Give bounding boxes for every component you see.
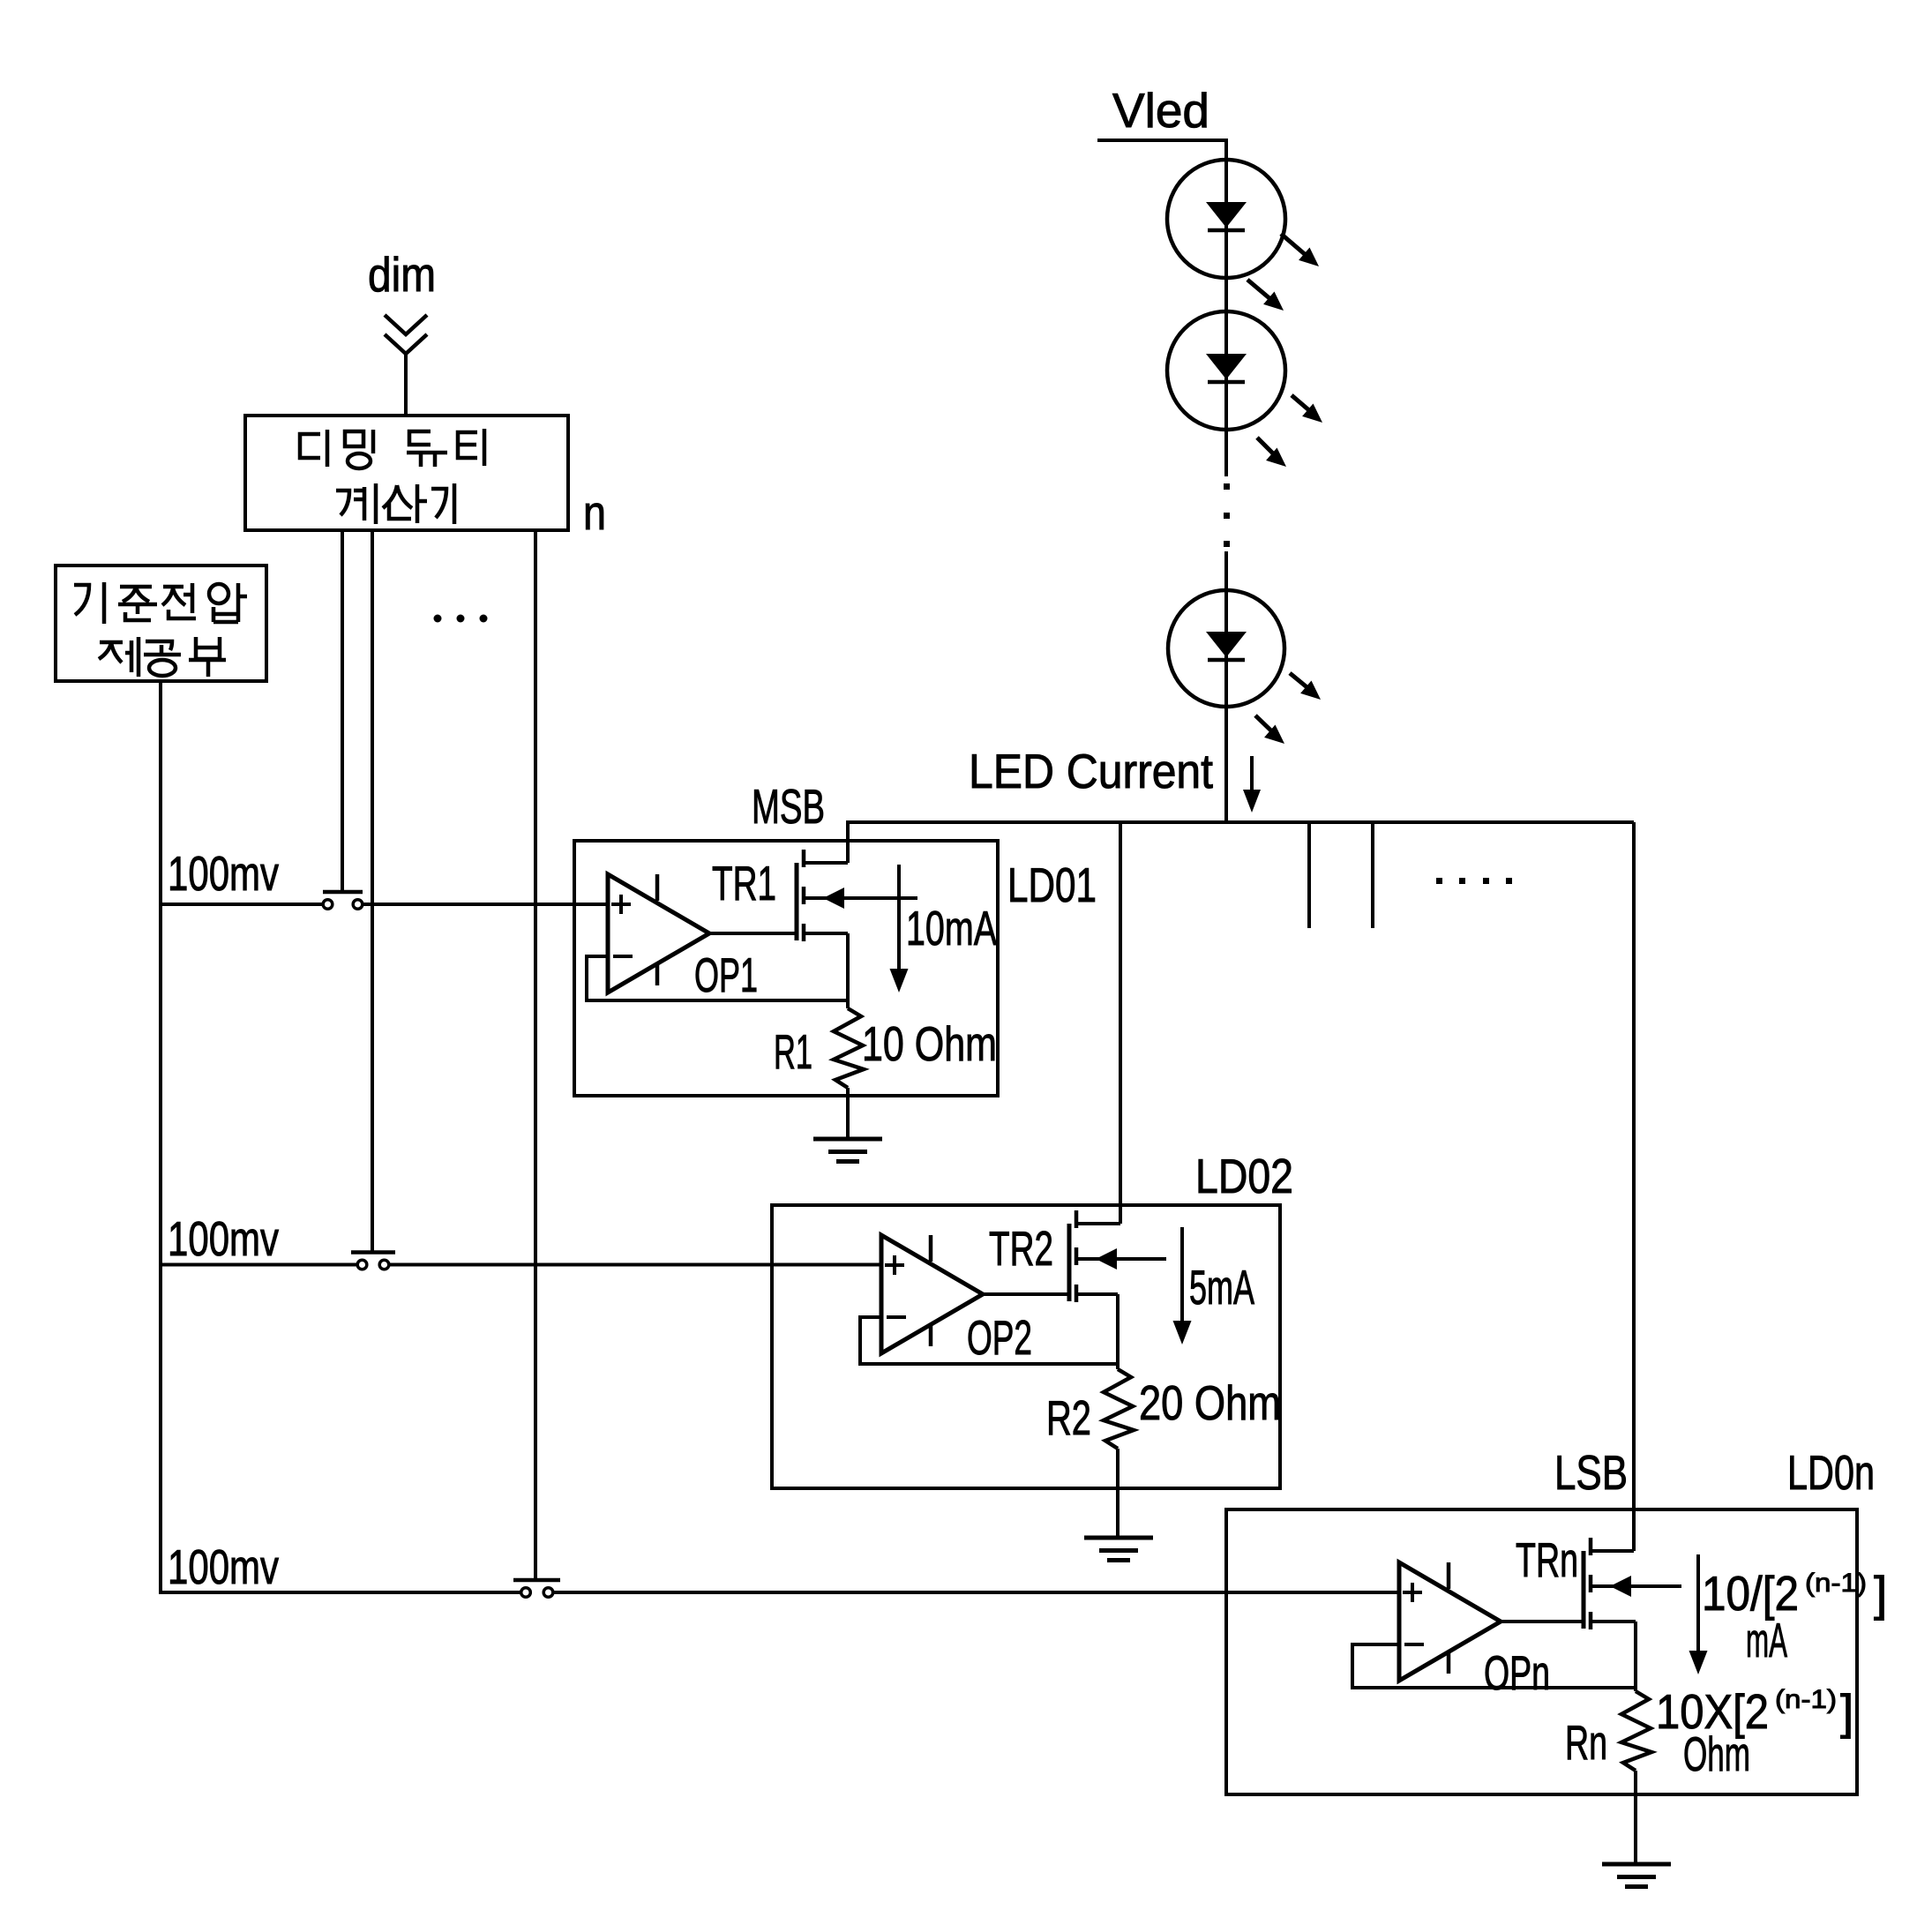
transistor TR2 [1067,1224,1072,1301]
wire TR1 source to R1 [846,933,850,1008]
wire 100mv rail 3 left [161,1591,520,1594]
svg-text:mA: mA [1746,1613,1787,1667]
resistor Rn [1621,1691,1651,1771]
svg-text:LSB: LSB [1554,1445,1628,1500]
wire OP2 feedback [860,1317,1118,1364]
LED D3 emission arrows [1290,673,1314,693]
switch SW1 [323,890,363,895]
wire Vled [1097,140,1226,160]
svg-text:(n-1): (n-1) [1775,1685,1837,1714]
current annotation 10mA arrow [897,865,901,971]
wire 100mv rail 2 right to OP2 [390,1263,881,1267]
LED string ellipsis dots [1224,483,1230,490]
resistor R2 [1104,1369,1134,1449]
wire bus to TRn drain [1632,822,1636,1551]
text reference-voltage line1 (Korean) [74,585,89,615]
svg-text:OP2: OP2 [967,1310,1032,1365]
wire OP2 output to TR2 gate [983,1292,1069,1296]
ground GND1 [813,1137,882,1142]
svg-text:n: n [583,485,606,540]
svg-text:]: ] [1874,1566,1887,1621]
svg-text:MSB: MSB [752,779,825,834]
op-amp OPn [1399,1562,1501,1681]
text calculator line2 (Korean) [336,491,349,515]
transistor TR1 [795,863,799,940]
svg-text:OPn: OPn [1484,1645,1550,1700]
wire LED string lower [1224,551,1228,822]
svg-text:10mA: 10mA [906,901,997,955]
wire dimming output 1 [341,530,344,892]
wire TR2 source to R2 [1116,1294,1120,1369]
ground GNDn [1602,1862,1671,1867]
svg-text:TRn: TRn [1516,1532,1578,1587]
LED current arrow [1250,756,1254,797]
text dimming duty line1 (Korean) [300,434,320,458]
wire LED string [1224,160,1228,476]
svg-text:100mv: 100mv [168,1539,279,1594]
wire bus stub 2 [1371,822,1374,928]
wire bus to TR2 drain [1119,822,1122,1224]
svg-text:20 Ohm: 20 Ohm [1139,1375,1281,1430]
ellipsis dots between dimming outputs [434,615,442,623]
LED D2 [1167,311,1285,430]
wire top bus [848,820,1634,824]
svg-text:OP1: OP1 [694,948,758,1002]
svg-text:LED Current: LED Current [969,744,1213,798]
svg-text:Vled: Vled [1112,83,1209,138]
current annotation 5mA arrow [1180,1227,1184,1323]
driver block LD02 box [772,1205,1280,1488]
wire dimming output n [534,530,537,1581]
wire OPn output to TRn gate [1501,1620,1584,1623]
svg-text:TR1: TR1 [712,856,776,910]
wire OPn feedback [1352,1644,1636,1688]
dimming duty calculator box [245,416,568,530]
wire dim to dimming duty calculator [404,354,408,417]
svg-text:10 Ohm: 10 Ohm [862,1016,997,1071]
wire 100mv rail 1 right to OP1 [363,903,608,906]
svg-text:LD0n: LD0n [1787,1445,1875,1500]
svg-text:dim: dim [368,247,436,302]
wire TRn source to Rn [1634,1622,1637,1691]
LED D3 [1168,590,1284,707]
wire 100mv rail 1 left [161,903,322,906]
wire R1 to ground [846,1088,850,1139]
wire 100mv rail 3 right to OPn [554,1591,1399,1594]
svg-text:TR2: TR2 [989,1221,1053,1276]
driver block LD0n box [1226,1509,1857,1794]
ground GND2 [1084,1536,1153,1540]
wire Rn to ground [1634,1771,1637,1864]
driver block LD01 box [574,841,998,1096]
LED D2 emission arrows [1292,395,1316,416]
text provider line2 (Korean) [100,640,123,645]
wire dimming output 2 [371,530,374,1251]
transistor TRn [1582,1551,1586,1629]
wire reference voltage rail [159,681,162,1594]
wire 100mv rail 2 left [161,1263,356,1267]
svg-text:(n-1): (n-1) [1805,1569,1867,1598]
switch SW2 [351,1250,395,1255]
svg-text:R2: R2 [1046,1390,1091,1445]
current annotation 10/[2^(n-1)] mA arrow [1696,1554,1700,1653]
wire R2 to ground [1116,1449,1120,1538]
op-amp OP1 [608,874,709,992]
svg-text:]: ] [1840,1684,1853,1739]
svg-text:LD01: LD01 [1007,858,1097,912]
reference voltage provider box [56,566,266,681]
resistor R1 [834,1008,864,1088]
wire bus to TR1 drain [846,820,850,863]
svg-text:5mA: 5mA [1189,1260,1254,1315]
LED D1 [1167,160,1285,278]
op-amp OP2 [881,1235,983,1353]
ellipsis dots further channels [1436,878,1442,884]
svg-text:Rn: Rn [1565,1715,1607,1770]
svg-text:100mv: 100mv [168,846,279,901]
wire OP1 feedback [587,956,848,1000]
svg-text:R1: R1 [774,1024,812,1079]
dim input chevron symbol [385,315,427,354]
switch SW3 [513,1578,560,1583]
svg-text:100mv: 100mv [168,1211,279,1266]
wire bus stub 1 [1307,822,1311,928]
LED D1 emission arrows [1281,234,1312,260]
svg-text:Ohm: Ohm [1683,1727,1750,1781]
wire OP1 output to TR1 gate [709,932,797,935]
svg-text:LD02: LD02 [1195,1149,1293,1203]
